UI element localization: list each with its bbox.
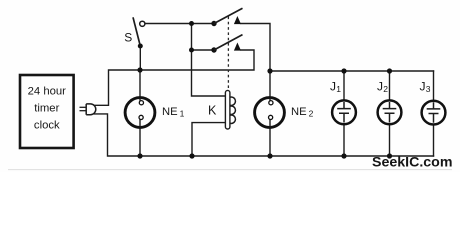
neon lamp NE2 bbox=[255, 98, 314, 128]
wire top contact to NE2 column bbox=[241, 24, 270, 157]
svg-text:3: 3 bbox=[426, 84, 431, 94]
svg-text:2: 2 bbox=[383, 84, 388, 94]
wire lamp J2 column bbox=[389, 71, 391, 156]
svg-text:24 hour: 24 hour bbox=[28, 86, 67, 98]
svg-text:NE: NE bbox=[291, 106, 307, 118]
switch S bbox=[124, 17, 145, 48]
wire lamp J1 column bbox=[343, 71, 345, 156]
svg-text:clock: clock bbox=[34, 120, 60, 132]
dashed actuation link bbox=[227, 17, 229, 90]
wire switch S output to contacts bbox=[145, 23, 214, 25]
svg-text:S: S bbox=[124, 31, 132, 45]
wire plug bottom to bottom bus bbox=[94, 114, 433, 156]
wire coil bottom lead to bottom bus bbox=[192, 123, 226, 156]
socket J3 bbox=[420, 80, 446, 125]
box 24 hour timer clock bbox=[20, 75, 74, 148]
plug P1 bbox=[80, 104, 96, 115]
svg-text:timer: timer bbox=[34, 103, 59, 115]
junction dots bottom bus bbox=[137, 153, 392, 158]
faint scan line bottom bbox=[8, 169, 452, 171]
wire switch S to top bus bbox=[139, 46, 141, 70]
svg-text:J: J bbox=[420, 80, 426, 94]
svg-text:1: 1 bbox=[180, 109, 185, 119]
relay contact K-2 (bottom) bbox=[189, 35, 243, 53]
svg-text:SeekIC.com: SeekIC.com bbox=[372, 155, 452, 171]
wire second contact row bbox=[192, 49, 215, 51]
wire contacts common vertical and coil top lead bbox=[192, 24, 226, 97]
neon lamp NE1 bbox=[125, 98, 185, 128]
svg-text:1: 1 bbox=[336, 84, 341, 94]
svg-text:K: K bbox=[208, 104, 217, 118]
svg-text:J: J bbox=[330, 80, 336, 94]
wire NE1 column bbox=[139, 70, 141, 156]
svg-text:J: J bbox=[377, 80, 383, 94]
relay contact K-1 (top) bbox=[189, 8, 243, 26]
socket J2 bbox=[377, 80, 401, 125]
junction dots top bus bbox=[137, 67, 392, 73]
svg-text:NE: NE bbox=[162, 106, 178, 118]
wire lamp J3 column (right edge) bbox=[433, 71, 435, 156]
svg-text:2: 2 bbox=[309, 109, 314, 119]
socket J1 bbox=[330, 80, 356, 125]
wire top bus left segment with second-contact drop bbox=[94, 50, 254, 105]
wire top bus right segment bbox=[270, 70, 434, 72]
relay coil K bbox=[208, 90, 235, 129]
